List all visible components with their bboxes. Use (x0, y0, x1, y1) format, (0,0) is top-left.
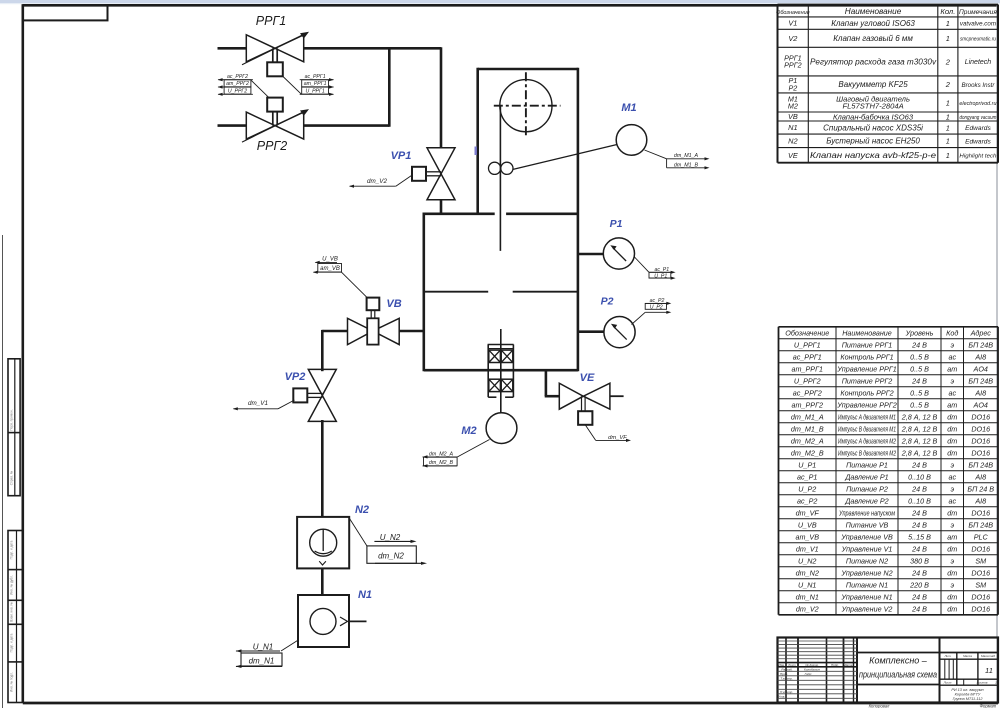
svg-text:VB: VB (386, 298, 401, 310)
svg-text:DO16: DO16 (971, 412, 990, 421)
svg-text:AI8: AI8 (974, 388, 986, 397)
svg-text:Управление VB: Управление VB (840, 532, 893, 541)
svg-text:Питание РРГ2: Питание РРГ2 (842, 376, 893, 385)
svg-text:dm_V2: dm_V2 (796, 604, 819, 613)
svg-text:э: э (950, 460, 954, 469)
svg-text:SM: SM (975, 556, 986, 565)
svg-text:1: 1 (946, 19, 950, 28)
svg-text:U_РРГ1: U_РРГ1 (305, 88, 324, 94)
svg-text:DO16: DO16 (971, 592, 990, 601)
svg-text:VP2: VP2 (285, 371, 306, 383)
svg-text:Дата: Дата (844, 663, 853, 667)
svg-text:1: 1 (946, 123, 950, 132)
motor M1 (616, 125, 647, 156)
svg-text:24 В: 24 В (911, 520, 927, 529)
callout U_N1 dm_N1 (281, 641, 298, 652)
svg-text:Бустерный насос EH250: Бустерный насос EH250 (826, 137, 920, 146)
svg-text:Взам. инв. №: Взам. инв. № (9, 602, 13, 622)
svg-text:Управление V2: Управление V2 (841, 604, 893, 613)
svg-text:Linetech: Linetech (965, 59, 992, 66)
svg-text:dm: dm (947, 436, 957, 445)
svg-text:U_РРГ2: U_РРГ2 (228, 88, 247, 94)
svg-text:Управление N2: Управление N2 (840, 568, 892, 577)
svg-text:Обозначение: Обозначение (785, 329, 829, 338)
svg-text:Импульс A двигателя M1: Импульс A двигателя M1 (838, 412, 896, 421)
svg-text:Разраб.: Разраб. (781, 668, 792, 672)
svg-text:AI8: AI8 (974, 496, 986, 505)
svg-text:Лист: Лист (943, 681, 952, 685)
magnetic feedthrough (488, 344, 514, 346)
svg-text:dm: dm (947, 604, 957, 613)
svg-text:Примечания: Примечания (959, 9, 997, 16)
svg-text:electroprivod.ru: electroprivod.ru (959, 101, 996, 107)
svg-text:AO4: AO4 (973, 400, 988, 409)
svg-text:DO16: DO16 (971, 508, 990, 517)
svg-text:Питание N2: Питание N2 (846, 556, 888, 565)
wire: RRG2 out to junction (304, 124, 390, 127)
svg-text:2,8 А, 12 В: 2,8 А, 12 В (901, 412, 938, 421)
vacuum chamber upper (with viewport) (478, 68, 578, 71)
svg-text:24 В: 24 В (911, 508, 927, 517)
svg-text:Управление РРГ2: Управление РРГ2 (836, 400, 896, 409)
svg-text:ac_P1: ac_P1 (797, 472, 817, 481)
svg-text:БП 24В: БП 24В (968, 520, 993, 529)
svg-text:ac: ac (948, 352, 956, 361)
svg-text:1: 1 (946, 151, 950, 160)
svg-text:Лит.: Лит. (943, 654, 951, 658)
svg-text:dm_V2: dm_V2 (367, 178, 387, 185)
svg-text:Импульс B двигателя M1: Импульс B двигателя M1 (838, 424, 896, 433)
wire: VB right to chamber (399, 330, 425, 333)
svg-text:M1: M1 (621, 102, 636, 114)
svg-text:Edwards: Edwards (965, 138, 991, 145)
svg-text:24 В: 24 В (911, 460, 927, 469)
butterfly valve VB (348, 318, 373, 344)
svg-text:Группа МТ11-112: Группа МТ11-112 (953, 697, 984, 701)
label dm_M2_B box (424, 457, 458, 466)
svg-text:N1: N1 (788, 123, 797, 132)
svg-text:1: 1 (946, 112, 950, 121)
svg-text:am_VB: am_VB (795, 532, 819, 541)
svg-text:э: э (950, 340, 954, 349)
leader M1 labels (645, 150, 667, 159)
svg-text:380 В: 380 В (910, 556, 929, 565)
svg-text:V2: V2 (788, 34, 797, 43)
svg-text:0..10 В: 0..10 В (908, 472, 931, 481)
svg-text:M2: M2 (461, 425, 476, 437)
svg-text:ac_P2: ac_P2 (797, 496, 817, 505)
svg-text:U_N1: U_N1 (253, 643, 273, 652)
svg-text:э: э (950, 520, 954, 529)
svg-text:dm_N2: dm_N2 (796, 568, 819, 577)
valve VP2 (308, 369, 336, 395)
svg-text:24 В: 24 В (911, 484, 927, 493)
svg-text:U_VB: U_VB (322, 257, 338, 263)
svg-text:Листов: Листов (976, 681, 988, 685)
svg-text:24 В: 24 В (911, 592, 927, 601)
svg-text:DO16: DO16 (971, 568, 990, 577)
svg-text:P2: P2 (601, 296, 614, 308)
svg-text:Highlight tech: Highlight tech (959, 154, 996, 160)
svg-text:am: am (947, 400, 957, 409)
svg-text:ac_РРГ1: ac_РРГ1 (305, 74, 326, 80)
svg-text:dm_N2: dm_N2 (378, 552, 404, 561)
svg-text:Габл: Габл (805, 672, 812, 676)
svg-text:ac_РРГ2: ac_РРГ2 (227, 74, 248, 80)
svg-text:Масштаб: Масштаб (981, 654, 995, 658)
drawing frame (21, 4, 24, 703)
svg-text:Королёв МГТУ: Королёв МГТУ (955, 693, 981, 697)
svg-text:Адрес: Адрес (970, 329, 992, 338)
svg-text:am: am (947, 532, 957, 541)
wire: gas inlet to RRG1 (218, 47, 247, 50)
svg-text:DO16: DO16 (971, 448, 990, 457)
svg-text:DO16: DO16 (971, 604, 990, 613)
callout U_N2 dm_N2 (349, 518, 367, 546)
vacuum chamber lower walls (422, 213, 425, 372)
svg-text:Пров.: Пров. (780, 672, 788, 676)
svg-text:24 В: 24 В (911, 376, 927, 385)
svg-text:Н.контр.: Н.контр. (780, 690, 793, 694)
wire: RRG1 out to VP1 riser (304, 47, 442, 50)
wire: N2 to N1 (321, 568, 324, 594)
svg-text:dm_VF: dm_VF (796, 508, 820, 517)
shaft to M2 (500, 329, 502, 413)
svg-text:dongyang vacuum: dongyang vacuum (959, 115, 997, 121)
svg-text:dm_N1: dm_N1 (249, 656, 275, 665)
svg-text:am_РРГ1: am_РРГ1 (304, 81, 327, 87)
svg-text:№ докум.: № докум. (805, 663, 818, 667)
svg-text:24 В: 24 В (911, 544, 927, 553)
callout ac_P1 U_P1 (634, 257, 649, 273)
svg-text:24 В: 24 В (911, 568, 927, 577)
svg-text:am_РРГ2: am_РРГ2 (792, 400, 823, 409)
svg-text:БП 24В: БП 24В (968, 460, 993, 469)
svg-text:Brooks Instr: Brooks Instr (961, 82, 995, 89)
svg-text:РРГ1: РРГ1 (256, 14, 286, 28)
svg-text:ac_P2: ac_P2 (650, 298, 665, 304)
svg-text:dm: dm (947, 508, 957, 517)
svg-text:dm: dm (947, 592, 957, 601)
svg-text:1: 1 (946, 137, 950, 146)
scroll pump N1 (298, 595, 349, 647)
svg-text:Клапан напуска avb-kf25-p-e: Клапан напуска avb-kf25-p-e (810, 151, 937, 160)
svg-text:Масса: Масса (963, 654, 972, 658)
svg-text:U_P2: U_P2 (650, 305, 663, 311)
svg-text:2: 2 (945, 57, 950, 66)
chamber mid flange line (gap at shaft) (424, 213, 495, 216)
svg-text:11: 11 (985, 666, 993, 675)
valve VP1 (427, 148, 455, 174)
svg-text:э: э (950, 376, 954, 385)
svg-text:Управление РРГ1: Управление РРГ1 (836, 364, 896, 373)
wire: VB left to VP2 corner (322, 330, 348, 333)
svg-text:dm_N1: dm_N1 (796, 592, 819, 601)
svg-text:Управление N1: Управление N1 (840, 592, 892, 601)
svg-text:smcpneumatic.ru: smcpneumatic.ru (960, 37, 996, 43)
vent valve VE (559, 383, 583, 409)
top window strip (0, 0, 1000, 3)
svg-text:Изм.: Изм. (778, 663, 785, 667)
pressure gauge P1 (603, 238, 634, 269)
svg-text:AO4: AO4 (973, 364, 988, 373)
svg-text:Контроль РРГ2: Контроль РРГ2 (840, 388, 893, 397)
svg-text:dm_M1_B: dm_M1_B (791, 424, 824, 433)
svg-text:dm_M2_A: dm_M2_A (791, 436, 824, 445)
signal table (bottom right) (779, 326, 999, 328)
svg-text:Спиральный насос XDS35i: Спиральный насос XDS35i (823, 123, 923, 132)
svg-text:0..10 В: 0..10 В (908, 496, 931, 505)
svg-text:dm_M2_A: dm_M2_A (429, 451, 454, 457)
svg-text:БП 24 В: БП 24 В (967, 484, 994, 493)
svg-text:dm_VF: dm_VF (608, 435, 627, 441)
paper left edge (2, 235, 4, 708)
svg-text:dm_M1_A: dm_M1_A (791, 412, 824, 421)
svg-text:Питание P1: Питание P1 (846, 460, 888, 469)
svg-text:U_РРГ1: U_РРГ1 (794, 340, 821, 349)
svg-text:Edwards: Edwards (965, 125, 991, 132)
svg-text:Формат: Формат (980, 703, 997, 708)
wire: P1 stub (579, 253, 604, 256)
shaft from viewport to shelf (499, 107, 501, 251)
svg-text:N1: N1 (358, 589, 372, 601)
svg-text:э: э (950, 484, 954, 493)
svg-text:Питание N1: Питание N1 (846, 580, 888, 589)
svg-text:P1: P1 (610, 218, 623, 230)
svg-text:Управление напуском: Управление напуском (838, 508, 895, 517)
svg-text:Питание VB: Питание VB (846, 520, 889, 529)
svg-text:Утв.: Утв. (778, 695, 785, 699)
svg-text:Комплексно –: Комплексно – (869, 656, 928, 666)
svg-text:Перв. примен.: Перв. примен. (10, 409, 14, 430)
svg-text:РИ 13 ил. вакуумн: РИ 13 ил. вакуумн (951, 688, 984, 692)
svg-text:1: 1 (946, 34, 950, 43)
svg-text:am: am (947, 364, 957, 373)
svg-text:ac: ac (948, 472, 956, 481)
svg-text:Импульс A двигателя M2: Импульс A двигателя M2 (838, 436, 896, 445)
wire: VP1 to chamber (440, 200, 443, 215)
svg-text:dm: dm (947, 412, 957, 421)
parts table (top right) (778, 4, 999, 6)
booster pump N2 (297, 517, 349, 569)
svg-text:VE: VE (580, 372, 595, 384)
svg-text:БП 24В: БП 24В (968, 340, 993, 349)
callout dm_VF (585, 425, 596, 441)
motor M2 (486, 413, 517, 444)
callout ac_P2 U_P2 (632, 312, 646, 324)
svg-text:Клапан газовый 6 мм: Клапан газовый 6 мм (833, 34, 913, 43)
svg-text:Клапан угловой ISO63: Клапан угловой ISO63 (831, 19, 915, 28)
svg-text:VP1: VP1 (391, 150, 412, 162)
svg-text:dm_M2_B: dm_M2_B (429, 460, 454, 466)
svg-text:Подп. и дата: Подп. и дата (9, 633, 13, 652)
svg-text:DO16: DO16 (971, 424, 990, 433)
svg-text:Давление P2: Давление P2 (844, 496, 888, 505)
svg-text:Подп.: Подп. (831, 663, 839, 667)
svg-text:0..5 В: 0..5 В (910, 388, 929, 397)
svg-text:DO16: DO16 (971, 436, 990, 445)
pulley pair (489, 162, 501, 174)
svg-text:0..5 В: 0..5 В (910, 400, 929, 409)
pressure gauge P2 (604, 317, 635, 348)
pump arrow > (340, 617, 348, 626)
svg-text:Кол.: Кол. (940, 7, 955, 16)
svg-text:U_N2: U_N2 (798, 556, 816, 565)
wire: chamber to VE (545, 370, 548, 397)
svg-text:PLC: PLC (974, 532, 989, 541)
svg-text:1: 1 (946, 98, 950, 107)
svg-text:SM: SM (975, 580, 986, 589)
svg-text:ac_РРГ1: ac_РРГ1 (793, 352, 822, 361)
svg-text:0..5 В: 0..5 В (910, 352, 929, 361)
svg-text:Давление P1: Давление P1 (844, 472, 888, 481)
svg-text:V1: V1 (788, 19, 797, 28)
svg-text:U_РРГ2: U_РРГ2 (794, 376, 821, 385)
svg-text:Инв. № дубл.: Инв. № дубл. (9, 575, 13, 595)
svg-text:am_РРГ1: am_РРГ1 (792, 364, 823, 373)
svg-text:dm: dm (947, 448, 957, 457)
svg-text:РРГ2: РРГ2 (784, 61, 802, 70)
svg-text:Наименование: Наименование (842, 329, 892, 338)
svg-text:э: э (950, 556, 954, 565)
svg-text:5..15 В: 5..15 В (908, 532, 931, 541)
svg-text:Питание P2: Питание P2 (846, 484, 888, 493)
svg-text:U_P2: U_P2 (798, 484, 816, 493)
svg-text:ac_РРГ2: ac_РРГ2 (793, 388, 822, 397)
svg-text:0..5 В: 0..5 В (910, 364, 929, 373)
wire: P2 stub (579, 330, 605, 333)
svg-text:2,8 А, 12 В: 2,8 А, 12 В (901, 436, 938, 445)
svg-text:э: э (950, 580, 954, 589)
chamber shelf line (gap in middle) (424, 291, 488, 293)
belt line to M1 (513, 145, 618, 170)
svg-text:Клапан-бабочка ISO63: Клапан-бабочка ISO63 (833, 112, 914, 121)
svg-text:Контроль РРГ1: Контроль РРГ1 (840, 352, 893, 361)
svg-text:VE: VE (788, 151, 798, 160)
svg-text:dm_M2_B: dm_M2_B (791, 448, 824, 457)
svg-text:dm_V1: dm_V1 (248, 400, 268, 407)
svg-text:Колобыхин: Колобыхин (804, 668, 820, 672)
svg-text:AI8: AI8 (974, 352, 986, 361)
svg-text:FL57STH7-2804A: FL57STH7-2804A (842, 102, 903, 111)
svg-text:Лист: Лист (787, 663, 796, 667)
svg-text:dm_V1: dm_V1 (796, 544, 819, 553)
svg-text:Справ. №: Справ. № (10, 470, 14, 485)
svg-text:N2: N2 (355, 504, 369, 516)
svg-text:2,8 А, 12 В: 2,8 А, 12 В (901, 424, 938, 433)
svg-text:БП 24В: БП 24В (968, 376, 993, 385)
svg-text:U_P1: U_P1 (798, 460, 816, 469)
viewport circle with centerlines (500, 80, 552, 132)
svg-text:dm: dm (947, 544, 957, 553)
wire: N1 exhaust (350, 620, 367, 622)
top-left corner box (23, 5, 108, 20)
svg-text:DO16: DO16 (971, 544, 990, 553)
svg-text:P2: P2 (789, 83, 798, 92)
flow V below N2 (319, 561, 326, 565)
svg-text:U_N1: U_N1 (798, 580, 816, 589)
svg-text:Уровень: Уровень (905, 329, 934, 338)
svg-text:Копировал: Копировал (869, 703, 890, 708)
svg-text:AI8: AI8 (974, 472, 986, 481)
wire: VE outlet stub (610, 395, 624, 397)
svg-text:ac: ac (948, 388, 956, 397)
svg-text:220 В: 220 В (909, 580, 929, 589)
leader VB (342, 272, 368, 297)
leader RRG1 (283, 77, 302, 95)
svg-text:dm: dm (947, 568, 957, 577)
svg-text:Обозначение: Обозначение (776, 10, 810, 16)
wire: gas inlet to RRG2 (218, 124, 247, 127)
svg-text:dm_M1_A: dm_M1_A (674, 153, 699, 159)
title block (778, 638, 999, 703)
svg-text:N2: N2 (788, 136, 797, 145)
svg-text:vatvalve.com: vatvalve.com (960, 21, 996, 28)
svg-text:Импульс B двигателя M2: Импульс B двигателя M2 (838, 448, 896, 457)
svg-text:24 В: 24 В (911, 604, 927, 613)
svg-text:Регулятор расхода газа m3030v: Регулятор расхода газа m3030v (810, 57, 937, 66)
wire: VP1 riser top (440, 47, 443, 148)
leader RRG2 (251, 80, 270, 98)
svg-text:M2: M2 (788, 101, 798, 110)
svg-text:Код: Код (946, 329, 958, 338)
svg-text:РРГ2: РРГ2 (257, 139, 287, 153)
svg-text:am_РРГ2: am_РРГ2 (226, 81, 249, 87)
wire: junction riser RRG2->RRG1 line (388, 47, 391, 127)
regulator valve RRG1 (246, 35, 275, 62)
regulator valve RRG2 (246, 112, 275, 139)
svg-text:Наименование: Наименование (845, 7, 902, 16)
svg-text:Питание РРГ1: Питание РРГ1 (842, 340, 893, 349)
wire: VP2 to N2 (321, 420, 324, 518)
svg-text:VB: VB (788, 112, 798, 121)
svg-text:am_VB: am_VB (320, 266, 340, 272)
svg-text:2: 2 (945, 80, 950, 89)
svg-text:ac: ac (948, 496, 956, 505)
svg-text:2,8 А, 12 В: 2,8 А, 12 В (901, 448, 938, 457)
left margin strip upper (8, 359, 20, 496)
svg-text:Инв. № подл.: Инв. № подл. (9, 672, 13, 692)
left margin strip lower (8, 531, 23, 703)
svg-text:Управление V1: Управление V1 (841, 544, 893, 553)
svg-text:U_VB: U_VB (798, 520, 817, 529)
svg-text:Подп. и дата: Подп. и дата (9, 540, 13, 559)
svg-text:принципиальная схема: принципиальная схема (859, 670, 937, 680)
leader M2 labels (458, 440, 490, 457)
node V1 artifact (475, 147, 477, 156)
svg-text:Т.контр.: Т.контр. (780, 677, 793, 681)
svg-text:24 В: 24 В (911, 340, 927, 349)
svg-text:Вакуумметр KF25: Вакуумметр KF25 (838, 80, 908, 89)
svg-text:dm: dm (947, 424, 957, 433)
